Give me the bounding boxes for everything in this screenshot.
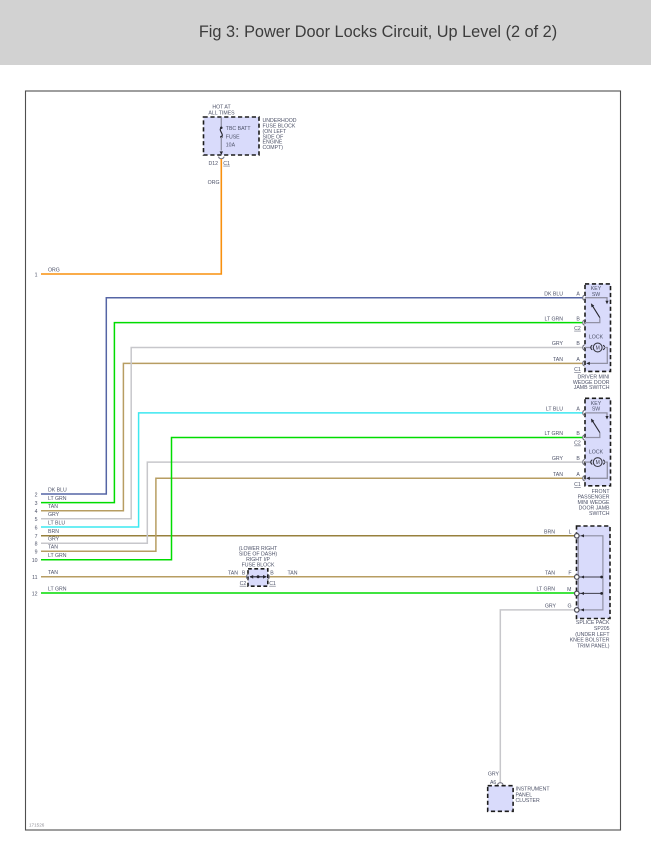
svg-text:C2: C2 xyxy=(574,441,581,447)
wire BRN node 7 xyxy=(35,529,575,540)
svg-text:11: 11 xyxy=(32,575,37,581)
svg-text:A6: A6 xyxy=(490,780,496,786)
svg-text:10: 10 xyxy=(32,558,38,564)
svg-text:LT BLU: LT BLU xyxy=(546,407,563,413)
svg-text:TAN: TAN xyxy=(553,472,563,478)
svg-text:M: M xyxy=(596,460,600,466)
svg-text:M: M xyxy=(567,587,571,593)
svg-text:ORG: ORG xyxy=(208,180,220,186)
key switch S contacts xyxy=(585,298,609,323)
wire GRY splice to instrument cluster xyxy=(488,604,574,783)
label DRIVER MINI WEDGE DOOR JAMB SWITCH xyxy=(573,374,610,391)
wire TAN node 4 xyxy=(35,363,583,515)
connector arc at cluster pin A6 xyxy=(498,783,504,785)
svg-text:C1: C1 xyxy=(574,367,581,373)
svg-text:Fig 3: Power Door Locks Circui: Fig 3: Power Door Locks Circuit, Up Leve… xyxy=(199,23,557,41)
svg-text:TAN: TAN xyxy=(288,570,298,576)
fuse F1 TBC BATT FUSE 10A xyxy=(220,118,251,151)
svg-text:SW: SW xyxy=(592,407,600,413)
svg-text:A: A xyxy=(576,407,580,413)
svg-text:B: B xyxy=(242,570,246,576)
splice bus bar xyxy=(578,534,603,611)
instrument panel cluster box xyxy=(488,786,513,812)
svg-text:LOCK: LOCK xyxy=(589,449,604,455)
svg-text:B: B xyxy=(576,431,580,437)
switch SW1 DRIVER MINI WEDGE DOOR JAMB SWITCH xyxy=(585,284,611,372)
svg-text:9: 9 xyxy=(35,550,38,556)
label KEY SW xyxy=(591,401,602,413)
svg-text:2: 2 xyxy=(35,492,38,498)
svg-text:C2: C2 xyxy=(240,581,247,587)
svg-text:LOCK: LOCK xyxy=(589,335,604,341)
header bar xyxy=(0,0,651,65)
svg-text:GRY: GRY xyxy=(552,456,564,462)
svg-text:JAMB SWITCH: JAMB SWITCH xyxy=(574,385,610,391)
svg-text:GRY: GRY xyxy=(48,537,60,543)
svg-text:COMPT): COMPT) xyxy=(263,145,284,151)
svg-text:LT BLU: LT BLU xyxy=(48,520,65,526)
connector arcs at switch pins xyxy=(583,295,585,366)
label KEY SW xyxy=(591,286,602,298)
connector C1 (I/P fuse block right) xyxy=(267,574,269,579)
svg-text:7: 7 xyxy=(35,534,38,540)
svg-text:TAN: TAN xyxy=(553,357,563,363)
svg-text:10A: 10A xyxy=(226,143,236,149)
svg-text:LT GRN: LT GRN xyxy=(48,553,67,559)
wire labels at driver door jamb switch xyxy=(544,291,563,363)
svg-text:ORG: ORG xyxy=(48,267,60,273)
svg-text:F: F xyxy=(568,570,571,576)
wire DK BLU node 2 xyxy=(35,298,583,499)
svg-text:GRY: GRY xyxy=(545,604,557,610)
svg-text:TAN: TAN xyxy=(228,570,238,576)
fuse block U2 (RIGHT I/P FUSE BLOCK) xyxy=(248,569,268,586)
lock motor M xyxy=(585,458,608,480)
wire TAN node 11 (left of I/P fuse block) xyxy=(32,570,247,581)
svg-text:171526: 171526 xyxy=(29,823,45,828)
label SPLICE PACK SP205 location xyxy=(570,620,611,650)
svg-text:6: 6 xyxy=(35,525,38,531)
svg-text:LT GRN: LT GRN xyxy=(48,586,67,592)
svg-text:DK BLU: DK BLU xyxy=(48,487,67,493)
wire labels at passenger door jamb switch xyxy=(544,407,563,478)
svg-text:ALL TIMES: ALL TIMES xyxy=(208,110,235,116)
wire LT BLU node 6 xyxy=(35,413,583,532)
svg-text:TAN: TAN xyxy=(48,570,58,576)
connector C2 (I/P fuse block left) xyxy=(247,574,249,579)
label FRONT PASSENGER MINI WEDGE DOOR JAMB SWITCH xyxy=(578,489,611,517)
wire LT GRN node 3 xyxy=(35,323,583,507)
svg-text:TAN: TAN xyxy=(48,545,58,551)
svg-text:L: L xyxy=(569,529,572,535)
svg-text:LT GRN: LT GRN xyxy=(48,496,67,502)
label RIGHT I/P FUSE BLOCK location xyxy=(239,546,278,569)
svg-text:LT GRN: LT GRN xyxy=(544,431,563,437)
svg-text:TAN: TAN xyxy=(48,504,58,510)
svg-text:DK BLU: DK BLU xyxy=(544,291,563,297)
svg-text:M: M xyxy=(596,345,600,351)
svg-text:G: G xyxy=(567,604,571,610)
svg-text:BRN: BRN xyxy=(544,529,555,535)
svg-text:TAN: TAN xyxy=(545,570,555,576)
pin letters xyxy=(576,291,580,363)
pin letters xyxy=(576,407,580,478)
svg-text:C1: C1 xyxy=(223,161,230,167)
svg-text:LT GRN: LT GRN xyxy=(536,587,555,593)
wire LT GRN node 10 xyxy=(32,438,583,565)
connector circles at splice pins xyxy=(575,534,580,613)
diagram frame xyxy=(26,91,621,830)
svg-text:C1: C1 xyxy=(574,482,581,488)
svg-text:GRY: GRY xyxy=(48,512,60,518)
lock motor M xyxy=(585,343,608,365)
svg-text:B: B xyxy=(576,341,580,347)
svg-text:8: 8 xyxy=(35,542,38,548)
label UNDERHOOD FUSE BLOCK location xyxy=(263,118,297,151)
svg-text:TBC BATT: TBC BATT xyxy=(226,126,252,132)
svg-text:B: B xyxy=(270,570,274,576)
wire GRY node 8 xyxy=(35,462,583,548)
svg-text:CLUSTER: CLUSTER xyxy=(516,798,540,804)
svg-text:GRY: GRY xyxy=(488,771,500,777)
splice wire inside I/P fuse block xyxy=(249,575,266,579)
connector arcs at switch pins xyxy=(583,410,585,481)
wire TAN node 9 xyxy=(35,478,583,555)
svg-text:A: A xyxy=(576,472,580,478)
svg-text:FUSE: FUSE xyxy=(226,134,240,140)
label INSTRUMENT PANEL CLUSTER xyxy=(516,786,551,804)
wire LT GRN node 12 xyxy=(32,586,575,597)
svg-text:BRN: BRN xyxy=(48,529,59,535)
svg-text:C2: C2 xyxy=(574,326,581,332)
svg-text:B: B xyxy=(576,456,580,462)
wire GRY node 5 xyxy=(35,348,583,524)
svg-text:5: 5 xyxy=(35,517,38,523)
wire TAN node 11 (right of I/P fuse block) xyxy=(269,570,574,576)
svg-text:GRY: GRY xyxy=(552,341,564,347)
key switch S contacts xyxy=(585,413,609,438)
wire ORG from fuse to node 1 xyxy=(41,159,221,274)
svg-text:D12: D12 xyxy=(208,161,218,167)
svg-text:SWITCH: SWITCH xyxy=(589,511,610,517)
fuse block U1 (UNDERHOOD FUSE BLOCK) xyxy=(204,117,260,155)
svg-text:LT GRN: LT GRN xyxy=(544,316,563,322)
arrow at fuse block exit xyxy=(220,151,223,155)
svg-text:FUSE BLOCK: FUSE BLOCK xyxy=(242,563,275,569)
svg-text:C1: C1 xyxy=(269,581,276,587)
splice pack SP205 xyxy=(577,526,611,619)
svg-text:4: 4 xyxy=(35,509,38,515)
svg-text:B: B xyxy=(576,316,580,322)
switch SW2 FRONT PASSENGER MINI WEDGE DOOR JAMB SWITCH xyxy=(585,398,611,486)
svg-text:1: 1 xyxy=(35,272,38,278)
label HOT AT ALL TIMES xyxy=(208,105,235,117)
svg-text:12: 12 xyxy=(32,591,38,597)
svg-text:TRIM PANEL): TRIM PANEL) xyxy=(577,644,610,650)
svg-text:A: A xyxy=(576,357,580,363)
svg-text:A: A xyxy=(576,291,580,297)
splice pin letters L F M G xyxy=(567,529,571,609)
connector C1 half-circle under fuse block xyxy=(219,157,225,159)
svg-text:3: 3 xyxy=(35,501,38,507)
